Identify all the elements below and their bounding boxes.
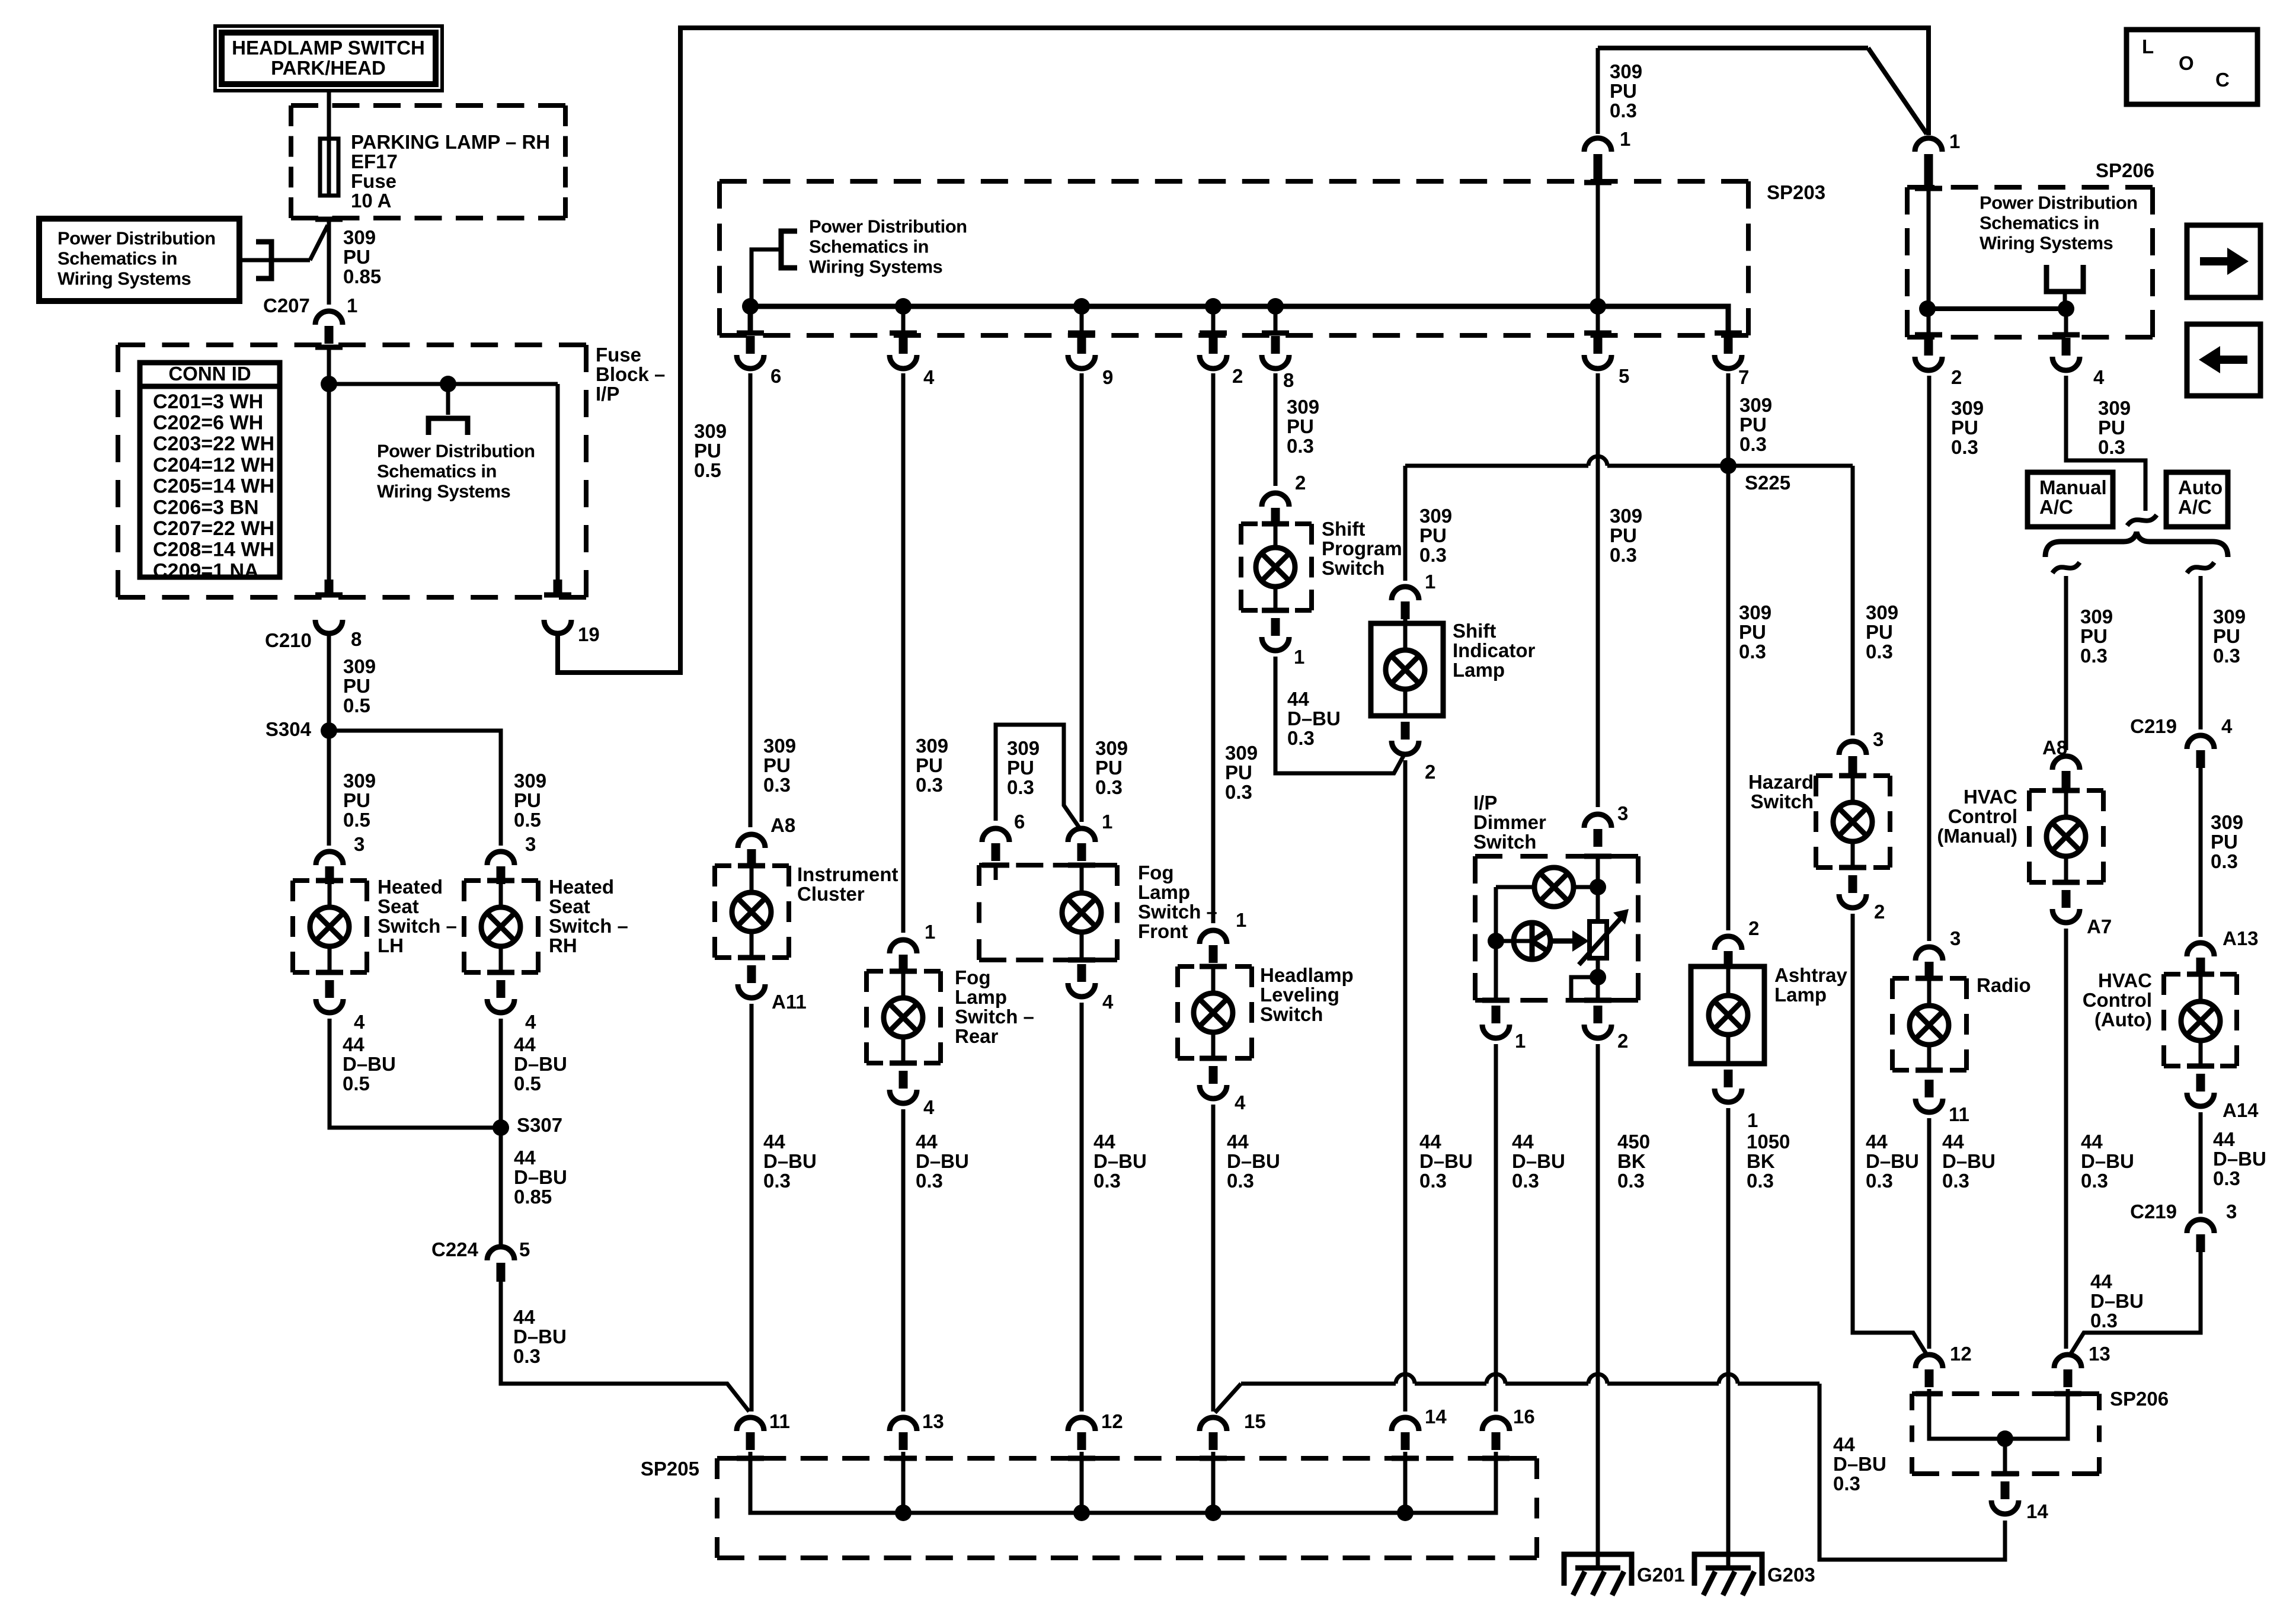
connector SP203 pin 9: [1068, 331, 1095, 336]
svg-text:0.3: 0.3: [1007, 776, 1034, 798]
connector pin 3 heated seat switch LH: [316, 852, 343, 865]
wire drop to shift indicator lamp pin 1: [1403, 466, 1408, 581]
svg-text:PU: PU: [1739, 621, 1766, 643]
svg-text:A14: A14: [2223, 1099, 2259, 1121]
svg-text:44: 44: [2213, 1128, 2235, 1150]
connector pin 3 radio: [1916, 947, 1943, 961]
connector SP203 pin 4: [890, 331, 917, 336]
svg-text:PU: PU: [763, 754, 791, 776]
svg-text:44: 44: [343, 1033, 364, 1055]
indicator lamp shift indicator lamp: [1403, 623, 1408, 650]
svg-text:PU: PU: [916, 754, 943, 776]
connector SP206 bottom pin 13: [2054, 1355, 2081, 1368]
svg-text:0.3: 0.3: [1512, 1170, 1539, 1192]
wire headlamp leveling pin 4 down to SP205 pin 15: [1211, 1105, 1216, 1411]
connector pin 4 heated seat switch LH: [316, 970, 343, 975]
wire rheostat to dimmer pin 2: [1596, 958, 1600, 1000]
node bus inside SP206 bottom: [1929, 1389, 2068, 1439]
svg-text:2: 2: [1951, 366, 1962, 388]
svg-text:1: 1: [925, 921, 935, 943]
svg-text:2: 2: [1748, 917, 1759, 939]
svg-text:4: 4: [2221, 715, 2233, 737]
svg-text:0.3: 0.3: [1866, 1170, 1893, 1192]
svg-text:309: 309: [1419, 505, 1452, 527]
svg-text:D–BU: D–BU: [1287, 708, 1341, 729]
svg-text:0.3: 0.3: [1610, 544, 1637, 566]
svg-text:C: C: [2215, 69, 2230, 91]
wire hazard pin 2 to SP206 pin 12: [1853, 914, 1927, 1355]
svg-text:D–BU: D–BU: [1512, 1150, 1565, 1172]
svg-text:Schematics in: Schematics in: [809, 236, 929, 257]
svg-text:PU: PU: [514, 789, 541, 811]
rheostat variable resistor inside dimmer switch: [1596, 887, 1600, 921]
svg-text:3: 3: [354, 833, 364, 855]
svg-text:Lamp: Lamp: [1453, 659, 1505, 681]
connector SP203 pin 5: [1584, 331, 1611, 336]
svg-text:PU: PU: [694, 440, 721, 462]
svg-text:A/C: A/C: [2178, 496, 2212, 518]
svg-text:D–BU: D–BU: [1866, 1150, 1919, 1172]
svg-text:Switch: Switch: [1473, 831, 1536, 853]
connector SP206 pin 4: [2052, 332, 2080, 338]
svg-text:4: 4: [525, 1011, 536, 1033]
svg-text:0.3: 0.3: [1225, 781, 1252, 803]
connector pin 1 I/P dimmer switch: [1482, 998, 1510, 1003]
svg-text:PU: PU: [2213, 625, 2240, 647]
svg-text:3: 3: [1873, 728, 1884, 750]
connector A11 instrument cluster: [738, 955, 765, 961]
svg-text:Rear: Rear: [955, 1025, 999, 1047]
indicator lamp HVAC control manual: [2064, 790, 2068, 817]
svg-text:I/P: I/P: [1473, 792, 1497, 814]
connector C210 pin 8: [315, 593, 343, 598]
svg-text:Indicator: Indicator: [1453, 639, 1536, 661]
svg-text:Control: Control: [1948, 805, 2017, 827]
svg-text:Cluster: Cluster: [797, 883, 865, 905]
svg-text:PU: PU: [1610, 80, 1637, 102]
node bus inside fuse block: [329, 382, 558, 386]
break squiggle between A/C boxes: [2127, 515, 2157, 526]
svg-text:D–BU: D–BU: [763, 1150, 817, 1172]
wire SP203 pin 9 riser: [1080, 306, 1084, 335]
svg-text:16: 16: [1513, 1406, 1535, 1427]
svg-text:A8: A8: [770, 814, 795, 836]
connector C207: [315, 311, 343, 325]
svg-text:309: 309: [1610, 60, 1642, 82]
svg-text:Switch: Switch: [1260, 1003, 1323, 1025]
svg-text:1: 1: [1425, 571, 1435, 593]
connector SP203 pin 6: [737, 331, 764, 336]
page reference fork inside SP206: [2046, 265, 2083, 292]
svg-text:PU: PU: [1287, 415, 1314, 437]
connector A7 HVAC control manual: [2052, 880, 2080, 885]
svg-text:D–BU: D–BU: [1942, 1150, 1996, 1172]
wire SP203 pin 8 riser: [1274, 306, 1278, 335]
svg-text:0.3: 0.3: [1739, 641, 1766, 662]
svg-text:Hazard: Hazard: [1748, 771, 1814, 793]
wire rheostat wiper step to case: [1571, 977, 1598, 999]
svg-text:1: 1: [347, 295, 357, 316]
svg-text:15: 15: [1244, 1410, 1266, 1432]
svg-text:A11: A11: [772, 991, 807, 1013]
wire dimmer lamp branch down to pin 1: [1494, 887, 1498, 1000]
svg-text:1: 1: [1747, 1109, 1758, 1131]
svg-text:PU: PU: [2080, 625, 2108, 647]
connector pin 1 headlamp leveling switch: [1200, 930, 1227, 944]
connector A13 HVAC control auto: [2187, 943, 2214, 956]
svg-text:Auto: Auto: [2178, 476, 2223, 498]
wire splice tail to power distribution reference: [242, 258, 310, 263]
svg-text:12: 12: [1101, 1410, 1123, 1432]
svg-text:Fuse: Fuse: [596, 344, 641, 366]
svg-text:0.5: 0.5: [514, 1073, 541, 1094]
svg-text:Instrument: Instrument: [797, 863, 898, 885]
svg-text:C206=3 BN: C206=3 BN: [153, 496, 259, 518]
wire shift program pin 1 to shift indicator lamp pin 2: [1275, 657, 1404, 773]
svg-text:Shift: Shift: [1453, 620, 1496, 642]
svg-text:PU: PU: [343, 675, 370, 697]
wire pin 19 to top bus riser: [558, 28, 1929, 673]
svg-text:D–BU: D–BU: [1419, 1150, 1473, 1172]
connector SP203 pin 2: [1200, 331, 1227, 336]
node dimmer LED junction: [1488, 933, 1504, 949]
svg-text:Power Distribution: Power Distribution: [1980, 193, 2138, 213]
node S304: [321, 722, 337, 739]
svg-text:PU: PU: [343, 789, 370, 811]
svg-text:4: 4: [2093, 366, 2105, 388]
svg-text:11: 11: [769, 1410, 790, 1432]
svg-text:309: 309: [1866, 601, 1898, 623]
break squiggle manual branch: [2052, 562, 2080, 573]
svg-text:309: 309: [2080, 606, 2113, 628]
svg-text:Wiring Systems: Wiring Systems: [809, 257, 942, 277]
svg-text:4: 4: [923, 1096, 935, 1118]
svg-text:D–BU: D–BU: [513, 1326, 567, 1347]
svg-text:D–BU: D–BU: [1227, 1150, 1280, 1172]
wire C219 pin 3 to SP206 pin 13: [2070, 1247, 2201, 1355]
svg-text:309: 309: [916, 735, 948, 757]
svg-text:14: 14: [1425, 1406, 1447, 1427]
node dimmer lamp junction: [1590, 879, 1606, 895]
svg-text:C203=22 WH: C203=22 WH: [153, 433, 274, 455]
svg-text:8: 8: [351, 628, 362, 650]
svg-text:D–BU: D–BU: [1093, 1150, 1147, 1172]
svg-text:C210: C210: [265, 629, 312, 651]
svg-text:O: O: [2179, 52, 2194, 74]
svg-text:2: 2: [1617, 1030, 1628, 1052]
wire C207 into fuse block down to C210: [315, 345, 343, 350]
svg-text:Headlamp: Headlamp: [1260, 964, 1354, 986]
svg-text:9: 9: [1102, 366, 1113, 388]
svg-text:PU: PU: [2211, 831, 2238, 853]
svg-text:Seat: Seat: [549, 895, 590, 917]
splice pack SP206 dashed box top right: [1907, 185, 2153, 190]
indicator lamp radio: [1927, 978, 1932, 1006]
wire A7 down to SP206 pin 13: [2064, 929, 2068, 1349]
svg-text:Schematics in: Schematics in: [57, 248, 177, 269]
component Heated Seat Switch - RH dashed box: [464, 878, 538, 883]
connector pin 2 shift program switch: [1262, 493, 1289, 507]
svg-text:19: 19: [578, 623, 600, 645]
svg-text:Schematics in: Schematics in: [377, 461, 497, 482]
svg-text:0.3: 0.3: [916, 774, 943, 796]
wire SP203 pin 9 to fog lamp switch front pin 1: [1080, 373, 1084, 822]
legend forward arrow box: [2187, 225, 2260, 297]
svg-text:A/C: A/C: [2039, 496, 2073, 518]
svg-text:PU: PU: [1225, 761, 1252, 783]
wire fog rear pin 4 down to SP205 pin 13: [901, 1109, 906, 1411]
svg-text:44: 44: [2081, 1131, 2103, 1153]
svg-text:Control: Control: [2083, 989, 2152, 1011]
connector A14 HVAC control auto: [2187, 1064, 2214, 1069]
wire fog front pin 4 down to SP205 pin 12: [1080, 1003, 1084, 1411]
indicator lamp fog lamp switch rear: [901, 971, 906, 998]
svg-text:C204=12 WH: C204=12 WH: [153, 454, 274, 476]
wire SP206 bus to pin 14: [2003, 1439, 2007, 1471]
svg-text:C219: C219: [2130, 1201, 2177, 1222]
svg-text:LH: LH: [378, 934, 404, 956]
svg-text:Fuse: Fuse: [351, 170, 396, 192]
svg-text:14: 14: [2026, 1500, 2048, 1522]
svg-text:309: 309: [343, 226, 376, 248]
svg-text:Program: Program: [1322, 537, 1402, 559]
svg-text:PU: PU: [1739, 414, 1767, 436]
connector SP206 pin 2: [1915, 332, 1942, 338]
svg-text:44: 44: [1512, 1131, 1534, 1153]
svg-text:309: 309: [2098, 397, 2131, 419]
svg-text:G203: G203: [1767, 1564, 1815, 1586]
wire SP205 pin 15 to SP206 pin 14 long run: [1215, 1384, 1241, 1413]
svg-text:PARKING LAMP – RH: PARKING LAMP – RH: [351, 131, 550, 153]
svg-text:0.3: 0.3: [513, 1345, 541, 1367]
svg-text:12: 12: [1950, 1343, 1972, 1365]
svg-text:7: 7: [1738, 366, 1749, 388]
svg-text:Ashtray: Ashtray: [1774, 964, 1848, 986]
svg-text:309: 309: [1739, 394, 1772, 416]
svg-text:Shift: Shift: [1322, 518, 1365, 540]
wire SP203 pin 4 riser: [901, 306, 906, 335]
svg-text:309: 309: [1287, 396, 1319, 418]
svg-text:PU: PU: [1610, 524, 1637, 546]
svg-text:C201=3 WH: C201=3 WH: [153, 391, 263, 413]
svg-text:S304: S304: [266, 718, 312, 740]
svg-text:3: 3: [1950, 927, 1961, 949]
svg-text:(Manual): (Manual): [1937, 825, 2017, 847]
svg-text:RH: RH: [549, 934, 577, 956]
page reference fork inside SP203: [752, 249, 781, 306]
wire auto branch down to C219 pin 4: [2199, 576, 2203, 729]
connector pin 3 heated seat switch RH: [487, 852, 514, 865]
svg-text:309: 309: [2211, 811, 2243, 833]
svg-text:0.5: 0.5: [343, 1073, 370, 1094]
wire S304 to heated seat LH: [327, 731, 331, 846]
svg-text:D–BU: D–BU: [2090, 1290, 2144, 1312]
svg-text:0.3: 0.3: [2098, 436, 2125, 458]
wire SP203 pin 1 to pin 5 column: [1596, 181, 1600, 335]
component Headlamp Leveling Switch dashed box: [1178, 964, 1252, 969]
indicator lamp inside dimmer switch: [1496, 885, 1535, 889]
indicator lamp ashtray lamp: [1726, 966, 1731, 996]
svg-text:PARK/HEAD: PARK/HEAD: [271, 57, 386, 79]
connector pin 1 shift indicator lamp: [1392, 587, 1419, 600]
wire SP203 pin 4 to fog lamp switch rear: [901, 373, 906, 933]
svg-text:3: 3: [525, 833, 536, 855]
svg-text:3: 3: [2226, 1201, 2237, 1222]
svg-text:0.3: 0.3: [916, 1170, 943, 1192]
svg-text:CONN ID: CONN ID: [168, 363, 251, 385]
svg-text:44: 44: [2090, 1270, 2112, 1292]
wire S307 to C224: [499, 1128, 503, 1245]
svg-text:5: 5: [1619, 365, 1629, 387]
svg-text:0.3: 0.3: [2080, 645, 2108, 667]
svg-text:PU: PU: [1951, 417, 1978, 438]
svg-text:D–BU: D–BU: [1833, 1453, 1886, 1475]
svg-text:I/P: I/P: [596, 383, 619, 405]
svg-text:309: 309: [694, 420, 727, 442]
svg-text:0.3: 0.3: [1951, 436, 1978, 458]
svg-text:8: 8: [1283, 369, 1294, 391]
svg-text:0.85: 0.85: [514, 1186, 552, 1208]
component HEADLAMP SWITCH PARK/HEAD title box: [215, 26, 442, 91]
svg-text:0.3: 0.3: [1833, 1473, 1860, 1494]
svg-text:0.5: 0.5: [694, 459, 721, 481]
svg-text:PU: PU: [2098, 417, 2125, 438]
svg-text:10 A: 10 A: [351, 190, 391, 212]
connector pin 2 shift indicator lamp: [1401, 722, 1410, 740]
connector SP203 pin 1: [1584, 138, 1611, 152]
connector pin 3 I/P dimmer switch: [1584, 814, 1611, 828]
svg-text:44: 44: [916, 1131, 938, 1153]
component HVAC Control Manual dashed box: [2029, 788, 2103, 793]
svg-text:44: 44: [1942, 1131, 1964, 1153]
svg-text:4: 4: [923, 366, 935, 388]
svg-text:3: 3: [1617, 802, 1628, 824]
connector A8 instrument cluster: [738, 834, 765, 848]
svg-text:0.3: 0.3: [1287, 435, 1314, 457]
svg-text:Power Distribution: Power Distribution: [809, 216, 967, 237]
connector pin 1 fog lamp switch rear: [890, 940, 917, 953]
svg-text:44: 44: [1866, 1131, 1888, 1153]
wire from headlamp switch to fuse EF17: [327, 91, 331, 142]
svg-text:Wiring Systems: Wiring Systems: [377, 481, 510, 502]
svg-text:4: 4: [1235, 1092, 1246, 1113]
svg-text:Wiring Systems: Wiring Systems: [57, 268, 191, 289]
svg-text:Front: Front: [1138, 920, 1188, 942]
splice pack SP203 dashed box: [720, 179, 1748, 184]
connector A8 HVAC control manual: [2052, 756, 2080, 770]
svg-text:2: 2: [1232, 365, 1243, 387]
splice pack SP205 dashed box: [717, 1456, 1537, 1461]
wire SP203 pin 2 riser: [1211, 306, 1216, 335]
connector pin 4 headlamp leveling switch: [1200, 1056, 1227, 1061]
wire down to ground G201: [1564, 1554, 1632, 1586]
wire loop feeding fog front pin 6: [996, 725, 1080, 828]
svg-text:6: 6: [770, 365, 781, 387]
connector SP203 pin 8: [1262, 331, 1289, 336]
svg-text:309: 309: [1225, 742, 1258, 764]
wire shift indicator pin 2 down to SP205 pin 14: [1403, 760, 1408, 1411]
svg-text:0.3: 0.3: [1287, 727, 1315, 749]
svg-text:0.3: 0.3: [1617, 1170, 1645, 1192]
component I/P Dimmer Switch dashed box: [1475, 854, 1638, 859]
connector SP205 pin 12: [1068, 1417, 1095, 1431]
wire S304 branch to heated seat RH: [329, 731, 501, 846]
svg-text:309: 309: [1610, 505, 1642, 527]
svg-text:1: 1: [1236, 909, 1246, 931]
svg-text:HVAC: HVAC: [1964, 786, 2017, 808]
svg-text:4: 4: [354, 1011, 365, 1033]
svg-text:0.5: 0.5: [343, 694, 370, 716]
svg-text:D–BU: D–BU: [916, 1150, 969, 1172]
svg-text:0.3: 0.3: [2211, 850, 2238, 872]
svg-text:309: 309: [1739, 601, 1771, 623]
svg-text:Lamp: Lamp: [955, 986, 1007, 1008]
connector pin 1 fog lamp switch front: [1068, 828, 1095, 842]
svg-text:C208=14 WH: C208=14 WH: [153, 539, 274, 561]
component Radio dashed box: [1892, 976, 1966, 981]
fuse block dashed box PARKING LAMP - RH: [291, 103, 565, 108]
svg-text:C209=1 NA: C209=1 NA: [153, 559, 259, 582]
svg-text:Schematics in: Schematics in: [1980, 213, 2099, 233]
svg-text:1: 1: [1949, 130, 1960, 152]
wire SP206 pin1 to pin 2: [1927, 187, 1931, 335]
legend back arrow box: [2187, 324, 2260, 396]
svg-text:4: 4: [1102, 991, 1114, 1013]
svg-text:PU: PU: [1866, 621, 1893, 643]
svg-text:S225: S225: [1745, 472, 1790, 494]
svg-text:309: 309: [763, 735, 796, 757]
svg-text:D–BU: D–BU: [343, 1053, 396, 1075]
wire SP206 pin 2 down to radio: [1927, 376, 1932, 941]
component Manual A/C box: [2028, 472, 2113, 527]
svg-text:D–BU: D–BU: [514, 1166, 567, 1188]
wire S225 line to hazard switch: [1851, 466, 1855, 735]
wire SP203 pin 5 to dimmer pin 3 with hop over S225 line: [1596, 373, 1600, 807]
wire SP203 pin 8 to shift program switch: [1274, 373, 1278, 486]
node S307: [493, 1119, 509, 1136]
svg-text:Power Distribution: Power Distribution: [377, 441, 535, 462]
svg-text:309: 309: [514, 770, 546, 792]
wire fuse to connector C207: [327, 218, 331, 305]
svg-text:13: 13: [922, 1410, 944, 1432]
svg-text:309: 309: [1007, 737, 1040, 759]
svg-text:C224: C224: [431, 1238, 479, 1260]
indicator lamp fog lamp switch front: [1080, 865, 1084, 893]
svg-text:C205=14 WH: C205=14 WH: [153, 475, 274, 498]
svg-text:Fog: Fog: [1138, 862, 1173, 884]
svg-text:A7: A7: [2087, 916, 2112, 937]
indicator lamp HVAC control auto: [2199, 974, 2203, 1001]
svg-text:S307: S307: [517, 1114, 562, 1136]
svg-text:BK: BK: [1617, 1150, 1646, 1172]
legend LOC box: [2126, 30, 2257, 104]
svg-text:A13: A13: [2223, 927, 2259, 949]
svg-text:Manual: Manual: [2039, 476, 2107, 498]
svg-text:309: 309: [1095, 737, 1128, 759]
svg-text:Fog: Fog: [955, 966, 990, 988]
svg-text:44: 44: [1227, 1131, 1249, 1153]
connector SP203 pin 7: [1715, 331, 1742, 336]
svg-text:C219: C219: [2130, 715, 2177, 737]
svg-text:Switch –: Switch –: [1138, 901, 1217, 923]
svg-text:Seat: Seat: [378, 895, 419, 917]
connector pin 4 fog lamp switch rear: [890, 1061, 917, 1066]
component Shift Indicator Lamp solid box: [1403, 601, 1408, 628]
svg-text:1: 1: [1294, 646, 1304, 668]
component Fuse Block - I/P dashed box: [118, 343, 586, 347]
svg-text:D–BU: D–BU: [2213, 1148, 2266, 1170]
wire heated seat RH to S307: [499, 1019, 503, 1128]
